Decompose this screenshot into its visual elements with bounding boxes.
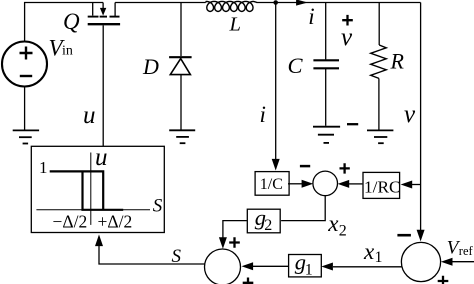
svg-text:−Δ/2: −Δ/2 [53, 212, 88, 232]
capacitor branch wire lower [325, 69, 327, 126]
svg-text:in: in [62, 44, 73, 59]
label + (junction 3 top) [229, 237, 240, 248]
wire Vin bottom to ground [24, 87, 26, 130]
svg-text:1/RC: 1/RC [364, 177, 401, 196]
hysteresis curve [50, 171, 124, 209]
block 1/C [255, 172, 289, 196]
arrow into summing junction 2 (right) [441, 258, 453, 266]
arrow into summing junction 2 [417, 230, 425, 242]
svg-text:2: 2 [264, 217, 272, 234]
diode branch wire lower [180, 75, 182, 130]
wire g1 to summing junction 3 [253, 265, 288, 267]
svg-text:v: v [404, 101, 416, 128]
summing junction 2 [401, 242, 440, 281]
summing junction 3 [205, 249, 241, 284]
svg-text:x: x [327, 211, 339, 236]
u axis [90, 153, 92, 225]
hysteresis block box [31, 146, 164, 232]
resistor branch wire upper [378, 3, 380, 46]
wire Vref input [452, 261, 474, 263]
capacitor branch wire upper [325, 3, 327, 60]
arrow into 1/RC (right side) [401, 181, 413, 189]
svg-text:R: R [390, 49, 405, 74]
wire top rail right (inductor to v branch) [257, 2, 421, 4]
svg-text:L: L [229, 14, 241, 36]
wire top rail middle (MOSFET to inductor) [115, 2, 206, 4]
wire i branch (junction down to 1/C) [275, 3, 277, 160]
svg-text:C: C [288, 53, 304, 78]
arrow into summing junction 3 (top) [219, 237, 227, 249]
transistor Q (MOSFET) [93, 3, 115, 147]
arrow into 1/C block [272, 159, 280, 171]
diode branch wire upper [180, 3, 182, 57]
S axis [36, 209, 150, 211]
svg-text:u: u [95, 144, 108, 171]
svg-text:+Δ/2: +Δ/2 [98, 212, 133, 232]
svg-text:u: u [83, 102, 96, 129]
label + (junction 3 bottom) [243, 278, 254, 284]
svg-text:i: i [260, 102, 266, 127]
label + (junction 1) [340, 163, 350, 173]
resistor R zigzag [371, 45, 387, 78]
arrow into g1 [321, 263, 333, 271]
arrow into hysteresis box (bottom) [95, 235, 103, 247]
arrow into summing junction 3 (right) [242, 262, 254, 270]
svg-text:1: 1 [305, 261, 313, 278]
node junction dot [273, 0, 278, 5]
ground (under capacitor) [313, 127, 340, 143]
ground (under diode) [169, 130, 195, 143]
svg-text:S: S [153, 196, 163, 217]
inductor L [206, 1, 257, 11]
svg-text:S: S [172, 246, 182, 267]
summing junction 1 [313, 171, 338, 196]
capacitor C plates [313, 59, 339, 61]
arrow into summing junction 1 (right) [338, 180, 350, 188]
svg-text:1: 1 [375, 249, 383, 266]
wire top rail left (Vin to MOSFET) [25, 3, 104, 42]
diode D [169, 56, 192, 58]
wire 1/C to summing junction 1 [288, 183, 302, 185]
svg-text:ref: ref [459, 244, 474, 258]
ground (under resistor) [367, 130, 393, 143]
wire g2 to summing junction 3 [223, 221, 247, 238]
svg-text:1/C: 1/C [260, 176, 283, 193]
wire v branch down to summing junction 2 [420, 3, 422, 231]
svg-text:1: 1 [39, 158, 48, 177]
wire 1/RC to summing junction 1 [349, 183, 362, 185]
wire v line to 1/RC [412, 184, 421, 186]
label + (junction 2 bottom) [438, 276, 449, 284]
block g1 [289, 255, 322, 277]
ground (left, under Vin) [13, 130, 39, 143]
resistor branch wire lower [378, 78, 380, 129]
block 1/RC [363, 172, 400, 198]
svg-text:x: x [363, 239, 375, 264]
MOSFET gate bar [88, 23, 120, 25]
MOSFET body arrow [100, 8, 106, 16]
wire junction 1 down to x2 node and to g2 [281, 196, 325, 221]
label + (cap top) [342, 15, 353, 26]
current arrow i (top rail) [296, 0, 308, 6]
label minus (junction 2) [397, 234, 411, 237]
wire junction 2 to g1 [333, 266, 402, 268]
svg-text:i: i [308, 4, 314, 29]
wire S output to hysteresis box [99, 246, 204, 264]
label minus (cap bottom) [347, 123, 358, 125]
svg-text:v: v [341, 24, 353, 51]
arrow into summing junction 1 (left) [302, 180, 314, 188]
svg-text:Q: Q [63, 9, 80, 34]
svg-text:2: 2 [339, 222, 347, 239]
voltage source Vin [2, 42, 47, 87]
label minus (junction 1) [300, 165, 310, 168]
block g2 [247, 209, 280, 233]
svg-text:D: D [142, 54, 159, 79]
